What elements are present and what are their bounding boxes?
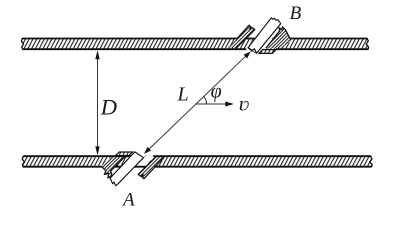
svg-text:B: B [290, 3, 302, 24]
svg-text:A: A [121, 190, 135, 211]
svg-text:L: L [177, 83, 189, 105]
svg-text:φ: φ [211, 81, 222, 103]
svg-text:D: D [100, 94, 117, 119]
svg-text:ʋ: ʋ [239, 93, 250, 116]
